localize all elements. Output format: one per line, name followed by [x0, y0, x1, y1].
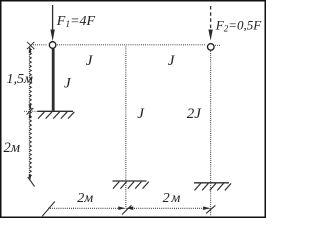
svg-text:2м: 2м [4, 140, 21, 156]
svg-text:2м: 2м [77, 191, 93, 206]
svg-text:1,5м: 1,5м [7, 72, 34, 87]
svg-text:2J: 2J [187, 106, 203, 122]
svg-text:F2=0,5F: F2=0,5F [215, 18, 262, 34]
svg-text:F1=4F: F1=4F [56, 14, 96, 30]
svg-text:2м: 2м [163, 191, 183, 206]
